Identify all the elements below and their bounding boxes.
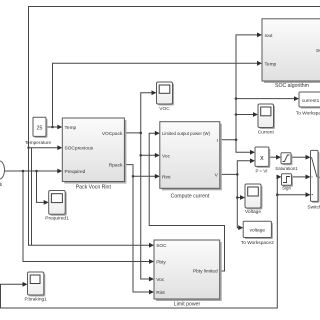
svg-text:VOC: VOC <box>159 106 170 112</box>
svg-text:Voltage: Voltage <box>245 209 261 215</box>
svg-text:Compute current: Compute current <box>171 193 210 199</box>
svg-text:x: x <box>260 155 264 162</box>
svg-text:VOCpack: VOCpack <box>102 131 123 137</box>
svg-text:Switch: Switch <box>307 204 320 210</box>
svg-text:To Workspace2: To Workspace2 <box>241 240 274 246</box>
svg-text:To Workspace: To Workspace <box>296 110 320 116</box>
svg-text:Sign: Sign <box>282 186 291 191</box>
svg-text:Rpack: Rpack <box>109 163 123 169</box>
svg-text:Temp: Temp <box>65 125 77 131</box>
svg-text:SOC algorithm: SOC algorithm <box>275 83 309 89</box>
svg-text:Rint: Rint <box>162 174 171 180</box>
svg-text:Voc: Voc <box>162 153 171 159</box>
svg-text:25: 25 <box>37 126 43 132</box>
svg-text:I: I <box>216 138 217 144</box>
svg-text:Prequired1: Prequired1 <box>45 216 69 222</box>
svg-text:voltage: voltage <box>250 228 266 234</box>
svg-text:Limited output power (W): Limited output power (W) <box>162 131 211 136</box>
svg-text:Voc: Voc <box>156 277 165 283</box>
svg-text:Pb: Pb <box>0 182 3 187</box>
svg-text:Iout: Iout <box>265 33 274 39</box>
svg-text:SOCprevious: SOCprevious <box>65 146 94 152</box>
svg-text:Pack Vocn Rint: Pack Vocn Rint <box>76 185 112 191</box>
svg-text:SOC: SOC <box>316 48 320 54</box>
svg-text:P = VI: P = VI <box>255 168 267 173</box>
svg-text:SOC: SOC <box>156 243 167 249</box>
svg-text:Limit power: Limit power <box>174 302 201 308</box>
svg-text:Pbty limited: Pbty limited <box>193 269 218 275</box>
svg-text:Prequired: Prequired <box>65 169 86 175</box>
svg-text:Pbty: Pbty <box>156 260 166 266</box>
svg-text:Temp: Temp <box>265 61 277 67</box>
svg-text:Temperature: Temperature <box>25 140 52 145</box>
svg-text:current1: current1 <box>302 98 320 104</box>
svg-text:Current: Current <box>258 129 275 135</box>
svg-text:Rint: Rint <box>156 290 165 296</box>
svg-text:Saturation1: Saturation1 <box>275 166 298 171</box>
svg-text:P.braking1: P.braking1 <box>25 297 48 303</box>
